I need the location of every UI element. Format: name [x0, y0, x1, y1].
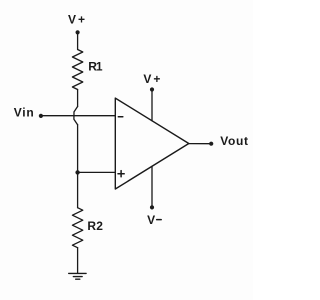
- V+ terminal dot (top): [76, 30, 80, 34]
- svg-text:V+: V+: [143, 72, 162, 86]
- pin label plus (non-inverting input): [118, 171, 124, 177]
- V- terminal dot (op-amp): [150, 205, 154, 209]
- V+ terminal dot (op-amp): [150, 87, 154, 91]
- wire R1 bottom to crossover hop: [77, 90, 79, 107]
- wire V+ terminal to op-amp top edge: [151, 91, 153, 121]
- wire op-amp output to Vout terminal: [189, 143, 210, 145]
- wire op-amp bottom edge to V- terminal: [151, 166, 153, 206]
- svg-text:R1: R1: [88, 60, 103, 74]
- wire R2 bottom to ground: [77, 248, 79, 273]
- Vin terminal dot: [39, 114, 43, 118]
- svg-text:V: V: [147, 213, 156, 227]
- svg-text:R2: R2: [87, 219, 103, 233]
- op-amp U1 triangle: [115, 98, 189, 189]
- svg-text:Vin: Vin: [14, 105, 35, 119]
- wire V+ terminal to R1 top: [77, 34, 79, 50]
- wire hop bottom to junction node: [77, 125, 79, 173]
- wire junction to R2 top: [77, 172, 79, 207]
- Vout terminal dot: [209, 142, 213, 146]
- svg-text:V+: V+: [68, 12, 87, 26]
- wire junction to op-amp non-inverting input: [78, 171, 116, 173]
- pin label minus (inverting input): [118, 116, 123, 118]
- wire hop (no-connect crossover of divider rail over Vin wire): [74, 107, 78, 125]
- ground symbol: [69, 273, 86, 279]
- svg-text:Vout: Vout: [220, 134, 249, 148]
- resistor R2: [72, 208, 82, 248]
- junction dot (R1/R2 divider node): [75, 170, 79, 174]
- resistor R1: [72, 50, 82, 90]
- wire Vin to op-amp inverting input: [41, 115, 115, 117]
